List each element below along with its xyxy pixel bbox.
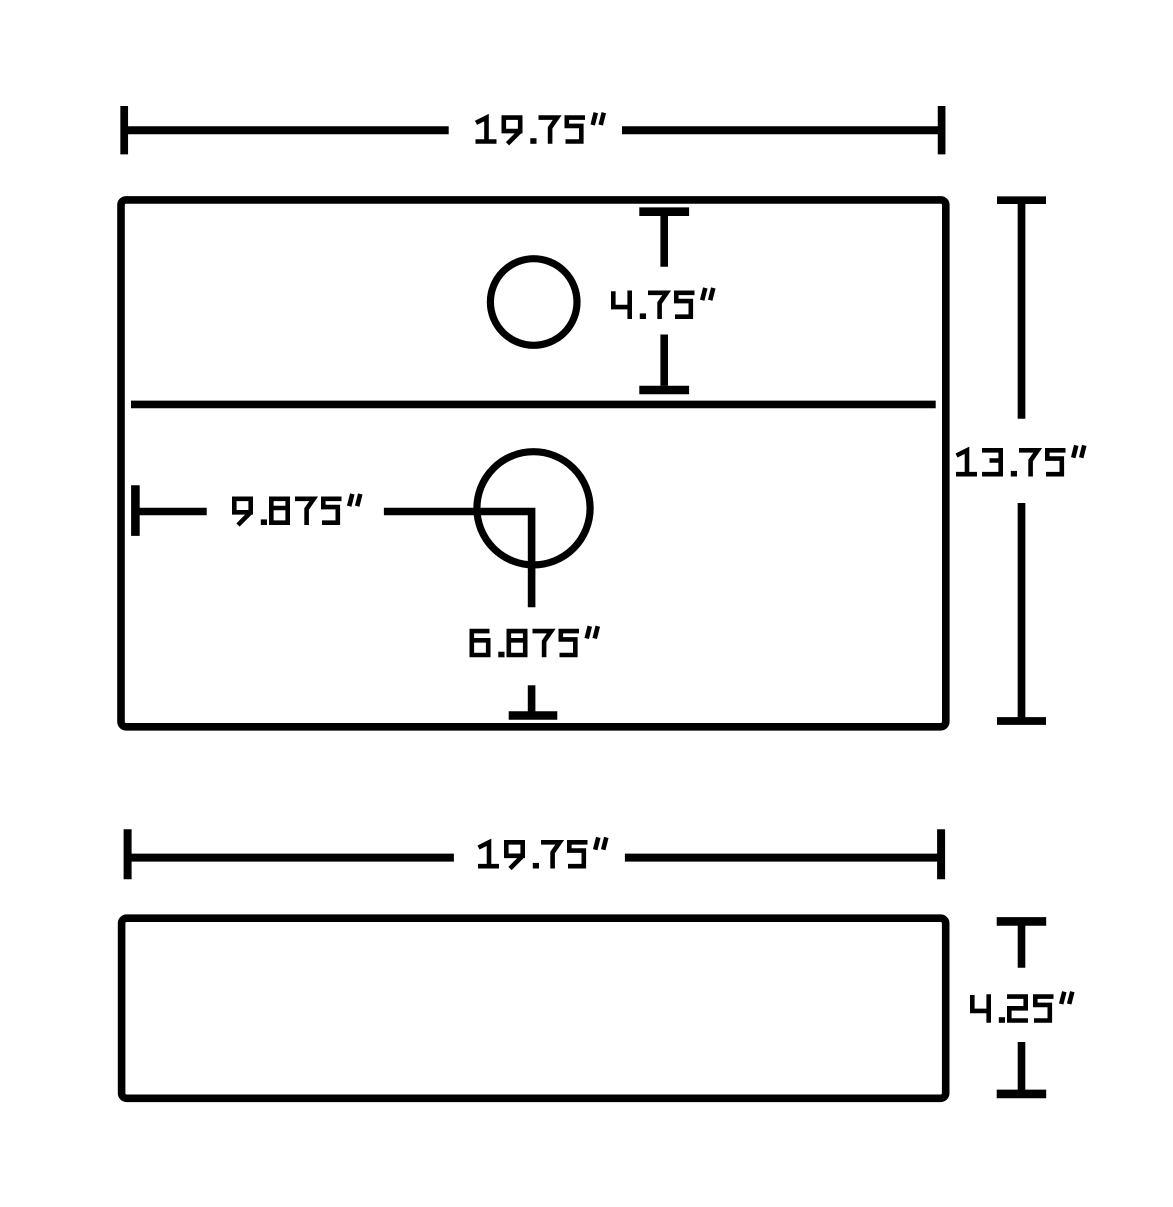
dim-4.75 upper stem xyxy=(660,212,668,267)
dim-4.75 label 4.75" xyxy=(613,288,713,319)
dim-13.75 lower stem xyxy=(1018,503,1026,721)
dim-19.75-bottom line right segment xyxy=(625,854,941,862)
dim-13.75 bottom tick xyxy=(997,717,1046,725)
dim-19.75-top line left segment xyxy=(124,126,449,134)
dim-4.25 label 4.25" xyxy=(972,992,1072,1023)
dim-19.75-top label 19.75" xyxy=(476,113,604,144)
dim-19.75-top left tick xyxy=(120,106,128,154)
dim-13.75 top tick xyxy=(997,196,1046,204)
dim-19.75-bottom label 19.75" xyxy=(478,837,606,868)
dim-19.75-top right tick xyxy=(938,106,946,154)
dim-19.75-top line right segment xyxy=(622,126,942,134)
dim-9.875 elbow to drain center xyxy=(384,512,532,608)
dim-4.75 lower stem xyxy=(660,335,668,386)
top view basin outline xyxy=(121,200,946,727)
dim-13.75 upper stem xyxy=(1018,200,1026,419)
dim-6.875 lower stem xyxy=(528,685,536,713)
dim-4.25 lower stem xyxy=(1018,1042,1026,1091)
dim-9.875 left tick xyxy=(131,485,140,536)
dim-4.25 top tick xyxy=(997,917,1046,926)
dim-13.75 label 13.75" xyxy=(956,445,1084,476)
drain hole xyxy=(477,452,590,565)
dim-9.875 label 9.875" xyxy=(234,494,360,525)
dim-4.25 bottom tick xyxy=(997,1090,1046,1099)
dim-6.875 label 6.875" xyxy=(472,626,598,657)
dim-4.25 upper stem xyxy=(1018,921,1026,967)
dim-9.875 line left segment xyxy=(135,508,206,516)
dim-19.75-bottom line left segment xyxy=(128,854,454,862)
side view outline xyxy=(122,918,946,1098)
dim-19.75-bottom right tick xyxy=(937,829,945,879)
deck divider line xyxy=(131,401,936,409)
dim-4.75 bottom tick xyxy=(639,386,689,395)
dim-4.75 top tick xyxy=(639,207,689,216)
faucet hole xyxy=(490,259,577,346)
dim-19.75-bottom left tick xyxy=(124,829,132,879)
dim-6.875 bottom tick xyxy=(509,711,558,720)
